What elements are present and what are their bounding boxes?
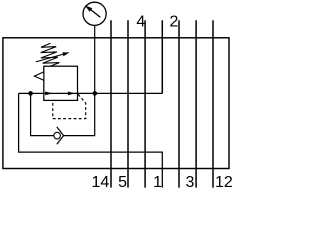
- regulator body: [44, 66, 78, 100]
- svg-text:14: 14: [92, 174, 110, 188]
- check valve circle: [54, 132, 61, 139]
- svg-text:3: 3: [185, 174, 194, 188]
- manifold outline: [3, 38, 229, 169]
- node junction right: [93, 91, 98, 96]
- pressure gauge: [83, 2, 106, 25]
- gauge needle: [91, 10, 101, 18]
- svg-text:12: 12: [215, 174, 232, 188]
- node junction left: [28, 91, 33, 96]
- port line 12: [212, 20, 214, 187]
- wire: gauge stem: [94, 26, 96, 94]
- regulator flow arrow left: [45, 92, 52, 96]
- regulator adjustment arrow: [36, 54, 64, 62]
- check valve seat: [57, 127, 64, 144]
- svg-text:5: 5: [118, 174, 127, 188]
- svg-text:2: 2: [169, 13, 178, 30]
- svg-text:4: 4: [136, 13, 145, 30]
- wire: branch to check valve right: [64, 93, 95, 135]
- port line 4: [144, 20, 146, 187]
- port line 14: [110, 20, 112, 187]
- port line 5: [127, 20, 129, 187]
- port line 1 upper segment: [161, 20, 163, 93]
- regulator spring: [41, 43, 60, 66]
- regulator flow arrow right: [68, 92, 75, 96]
- port line 2: [178, 20, 180, 187]
- port line 3: [195, 20, 197, 187]
- pilot line dashed: [53, 94, 86, 118]
- svg-text:1: 1: [153, 174, 162, 188]
- regulator vent triangle: [34, 72, 43, 80]
- wire: lower loop to port 1: [19, 93, 163, 187]
- wire: branch to check valve left: [31, 93, 54, 135]
- wire: main supply line: [19, 92, 163, 94]
